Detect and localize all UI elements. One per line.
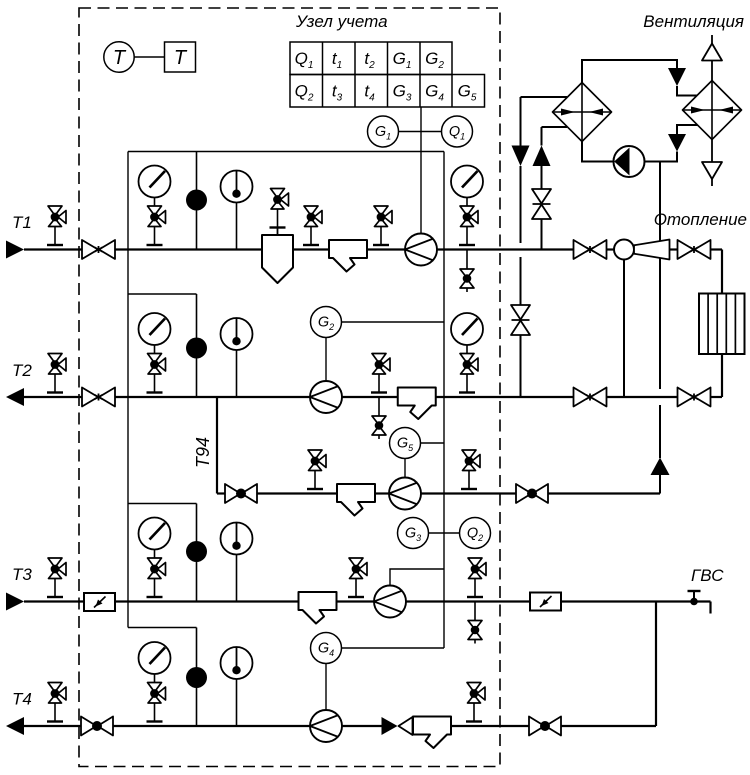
filter T3	[299, 592, 337, 624]
valve T3 after filter	[348, 558, 367, 597]
svg-text:Т3: Т3	[12, 565, 32, 584]
flowmeter T94	[389, 478, 421, 510]
drain valve T1	[460, 250, 474, 293]
wire G3-Q2	[429, 532, 460, 534]
wire G5 to collector	[421, 442, 445, 444]
pump ventilation	[614, 146, 645, 177]
table cell texts	[295, 49, 477, 104]
wire G4 to T4 flowmeter	[325, 664, 327, 711]
manometer T4 left	[139, 642, 171, 722]
filter T4	[413, 717, 451, 749]
pipe radiator return drop	[721, 354, 723, 397]
svg-text:Вентиляция: Вентиляция	[643, 12, 744, 31]
pipe heating supply riser to ventilation HX return	[521, 97, 568, 397]
node T1 inlet arrow	[6, 241, 24, 259]
wire T3 flowmeter to collector	[390, 569, 444, 586]
pipe elevator suction	[623, 260, 625, 398]
temperature sensor circle T	[104, 42, 134, 72]
circle Q2	[460, 518, 491, 549]
valve T1 before filter	[303, 206, 322, 245]
pipe T3	[24, 602, 711, 614]
manometer T2 right	[451, 313, 483, 393]
wire from table to T1 flowmeter	[420, 107, 422, 234]
wire G1-Q1	[399, 131, 442, 133]
circle G4	[311, 633, 342, 664]
valve T3 right tap	[467, 558, 486, 597]
valve T94 right tap	[461, 450, 480, 489]
radiator	[699, 294, 745, 355]
wire G4 to collector	[342, 647, 445, 649]
flow restrictor GVS	[530, 593, 561, 611]
svg-text:T: T	[174, 47, 188, 69]
wire G2 to collector	[342, 321, 445, 323]
filter T1	[329, 240, 367, 272]
valve gate on HX supply	[532, 189, 551, 219]
wire T1 signal line	[128, 151, 444, 153]
circle Q1	[442, 116, 473, 147]
filter T2	[398, 388, 436, 420]
GVS tap	[688, 591, 701, 605]
thermometer T4	[221, 647, 253, 726]
manometer T2 left	[139, 313, 171, 393]
wire T2 thermowell	[196, 294, 198, 397]
flowmeter T2	[310, 381, 342, 413]
wire left signal collector	[127, 152, 129, 628]
node T2 outlet arrow	[6, 388, 24, 406]
wire T sensor to T register	[134, 56, 164, 58]
pipe T1	[24, 248, 722, 250]
pipe heating supply extension	[721, 250, 723, 294]
valve T4 right tap	[466, 683, 485, 722]
mud trap T1	[262, 235, 293, 283]
pipe to right HX upper port	[677, 86, 698, 96]
manometer T3 left	[139, 518, 171, 598]
svg-text:Отопление: Отопление	[654, 210, 747, 229]
elevator mixing unit	[614, 240, 670, 260]
node flow arrow up on makeup line	[651, 458, 670, 476]
svg-text:Узел учета: Узел учета	[295, 12, 388, 31]
manometer T1 right	[451, 166, 483, 246]
svg-text:Т4: Т4	[12, 690, 32, 709]
temperature register square T	[165, 42, 196, 72]
check valve T4	[382, 717, 413, 735]
pipe makeup line from T94 to pump suction	[659, 162, 661, 494]
wire T4 thermowell	[196, 628, 198, 727]
air duct arrow below right HX	[702, 140, 722, 187]
circle G3	[398, 518, 429, 549]
drain valve T2	[372, 397, 386, 440]
svg-text:ГВС: ГВС	[691, 566, 724, 585]
wire right signal collector	[443, 152, 445, 649]
valve T2 gate	[82, 388, 115, 407]
valve heating supply right	[678, 240, 711, 259]
circle G5	[390, 428, 421, 459]
valve T2 tap	[47, 354, 66, 393]
wire T3 thermowell	[196, 504, 198, 602]
svg-text:Т1: Т1	[12, 213, 32, 232]
node flow arrow down to right HX	[668, 68, 686, 86]
circle G2	[311, 307, 342, 338]
pipe ventilation HX supply	[542, 127, 568, 250]
manometer T1 left	[139, 166, 171, 246]
wire T4 signal line	[128, 627, 197, 629]
valve heating return left	[574, 388, 607, 407]
valve on mud trap	[270, 189, 289, 236]
heat exchanger right (air heater)	[683, 81, 742, 140]
valve T2 after flowmeter	[371, 354, 390, 393]
node T4 outlet arrow	[6, 717, 24, 735]
node flow arrow up on HX supply	[533, 146, 551, 167]
pipe pump to right HX lower port	[645, 152, 678, 162]
pipe T4	[24, 725, 656, 727]
flowmeter T4	[310, 710, 342, 742]
pipe HX top loop	[582, 60, 677, 83]
thermowell T3	[186, 541, 207, 562]
svg-text:Т2: Т2	[12, 361, 32, 380]
thermowell T2	[186, 338, 207, 359]
wire T2 signal line	[128, 293, 197, 295]
valve gate on HX return	[511, 305, 530, 335]
valve T4 tap	[47, 683, 66, 722]
node T3 inlet arrow	[6, 593, 24, 611]
pipe T2	[24, 396, 722, 398]
thermowell T1	[186, 190, 207, 211]
pipe to right HX lower port	[677, 125, 698, 134]
valve heating supply left	[574, 240, 607, 259]
ball valve T94	[225, 484, 257, 503]
valve T3 tap	[47, 558, 66, 597]
ball valve T4	[81, 717, 113, 736]
valve heating return right	[678, 388, 711, 407]
drain valve T3	[468, 602, 482, 644]
table of measured values	[290, 42, 485, 107]
air duct arrow above right HX	[702, 35, 722, 81]
flowmeter T1	[405, 234, 437, 266]
valve T94 tap	[307, 450, 326, 489]
filter T94	[337, 484, 375, 516]
valve T1 after filter	[373, 206, 392, 245]
svg-text:T: T	[113, 47, 127, 69]
node flow arrow down from right HX	[668, 134, 686, 152]
circle G1	[368, 116, 399, 147]
pipe GVS recirculation drop	[655, 602, 657, 727]
ball valve T4 outside	[529, 717, 561, 736]
heat exchanger left (air heater)	[553, 83, 612, 142]
wire G5 to T94 flowmeter	[404, 459, 406, 478]
thermometer T3	[221, 523, 253, 602]
dashed boundary of metering unit	[79, 8, 500, 767]
thermowell T4	[186, 667, 207, 688]
wire T1 thermowell	[196, 152, 198, 250]
pipe HX bottom loop	[582, 142, 614, 162]
valve T1 gate	[82, 240, 115, 259]
flow restrictor T3	[84, 593, 115, 611]
flowmeter T3	[374, 586, 406, 618]
svg-text:Т94: Т94	[193, 437, 213, 468]
pipe T94 branch	[217, 397, 660, 494]
node flow arrow down on HX return	[512, 146, 530, 167]
ball valve T94 outside	[516, 484, 548, 503]
thermometer T2	[221, 318, 253, 397]
valve T1 tap	[47, 206, 66, 245]
wire G2 to T2 flowmeter	[325, 338, 327, 382]
thermometer T1	[221, 171, 253, 250]
wire T3 signal line	[128, 503, 197, 505]
